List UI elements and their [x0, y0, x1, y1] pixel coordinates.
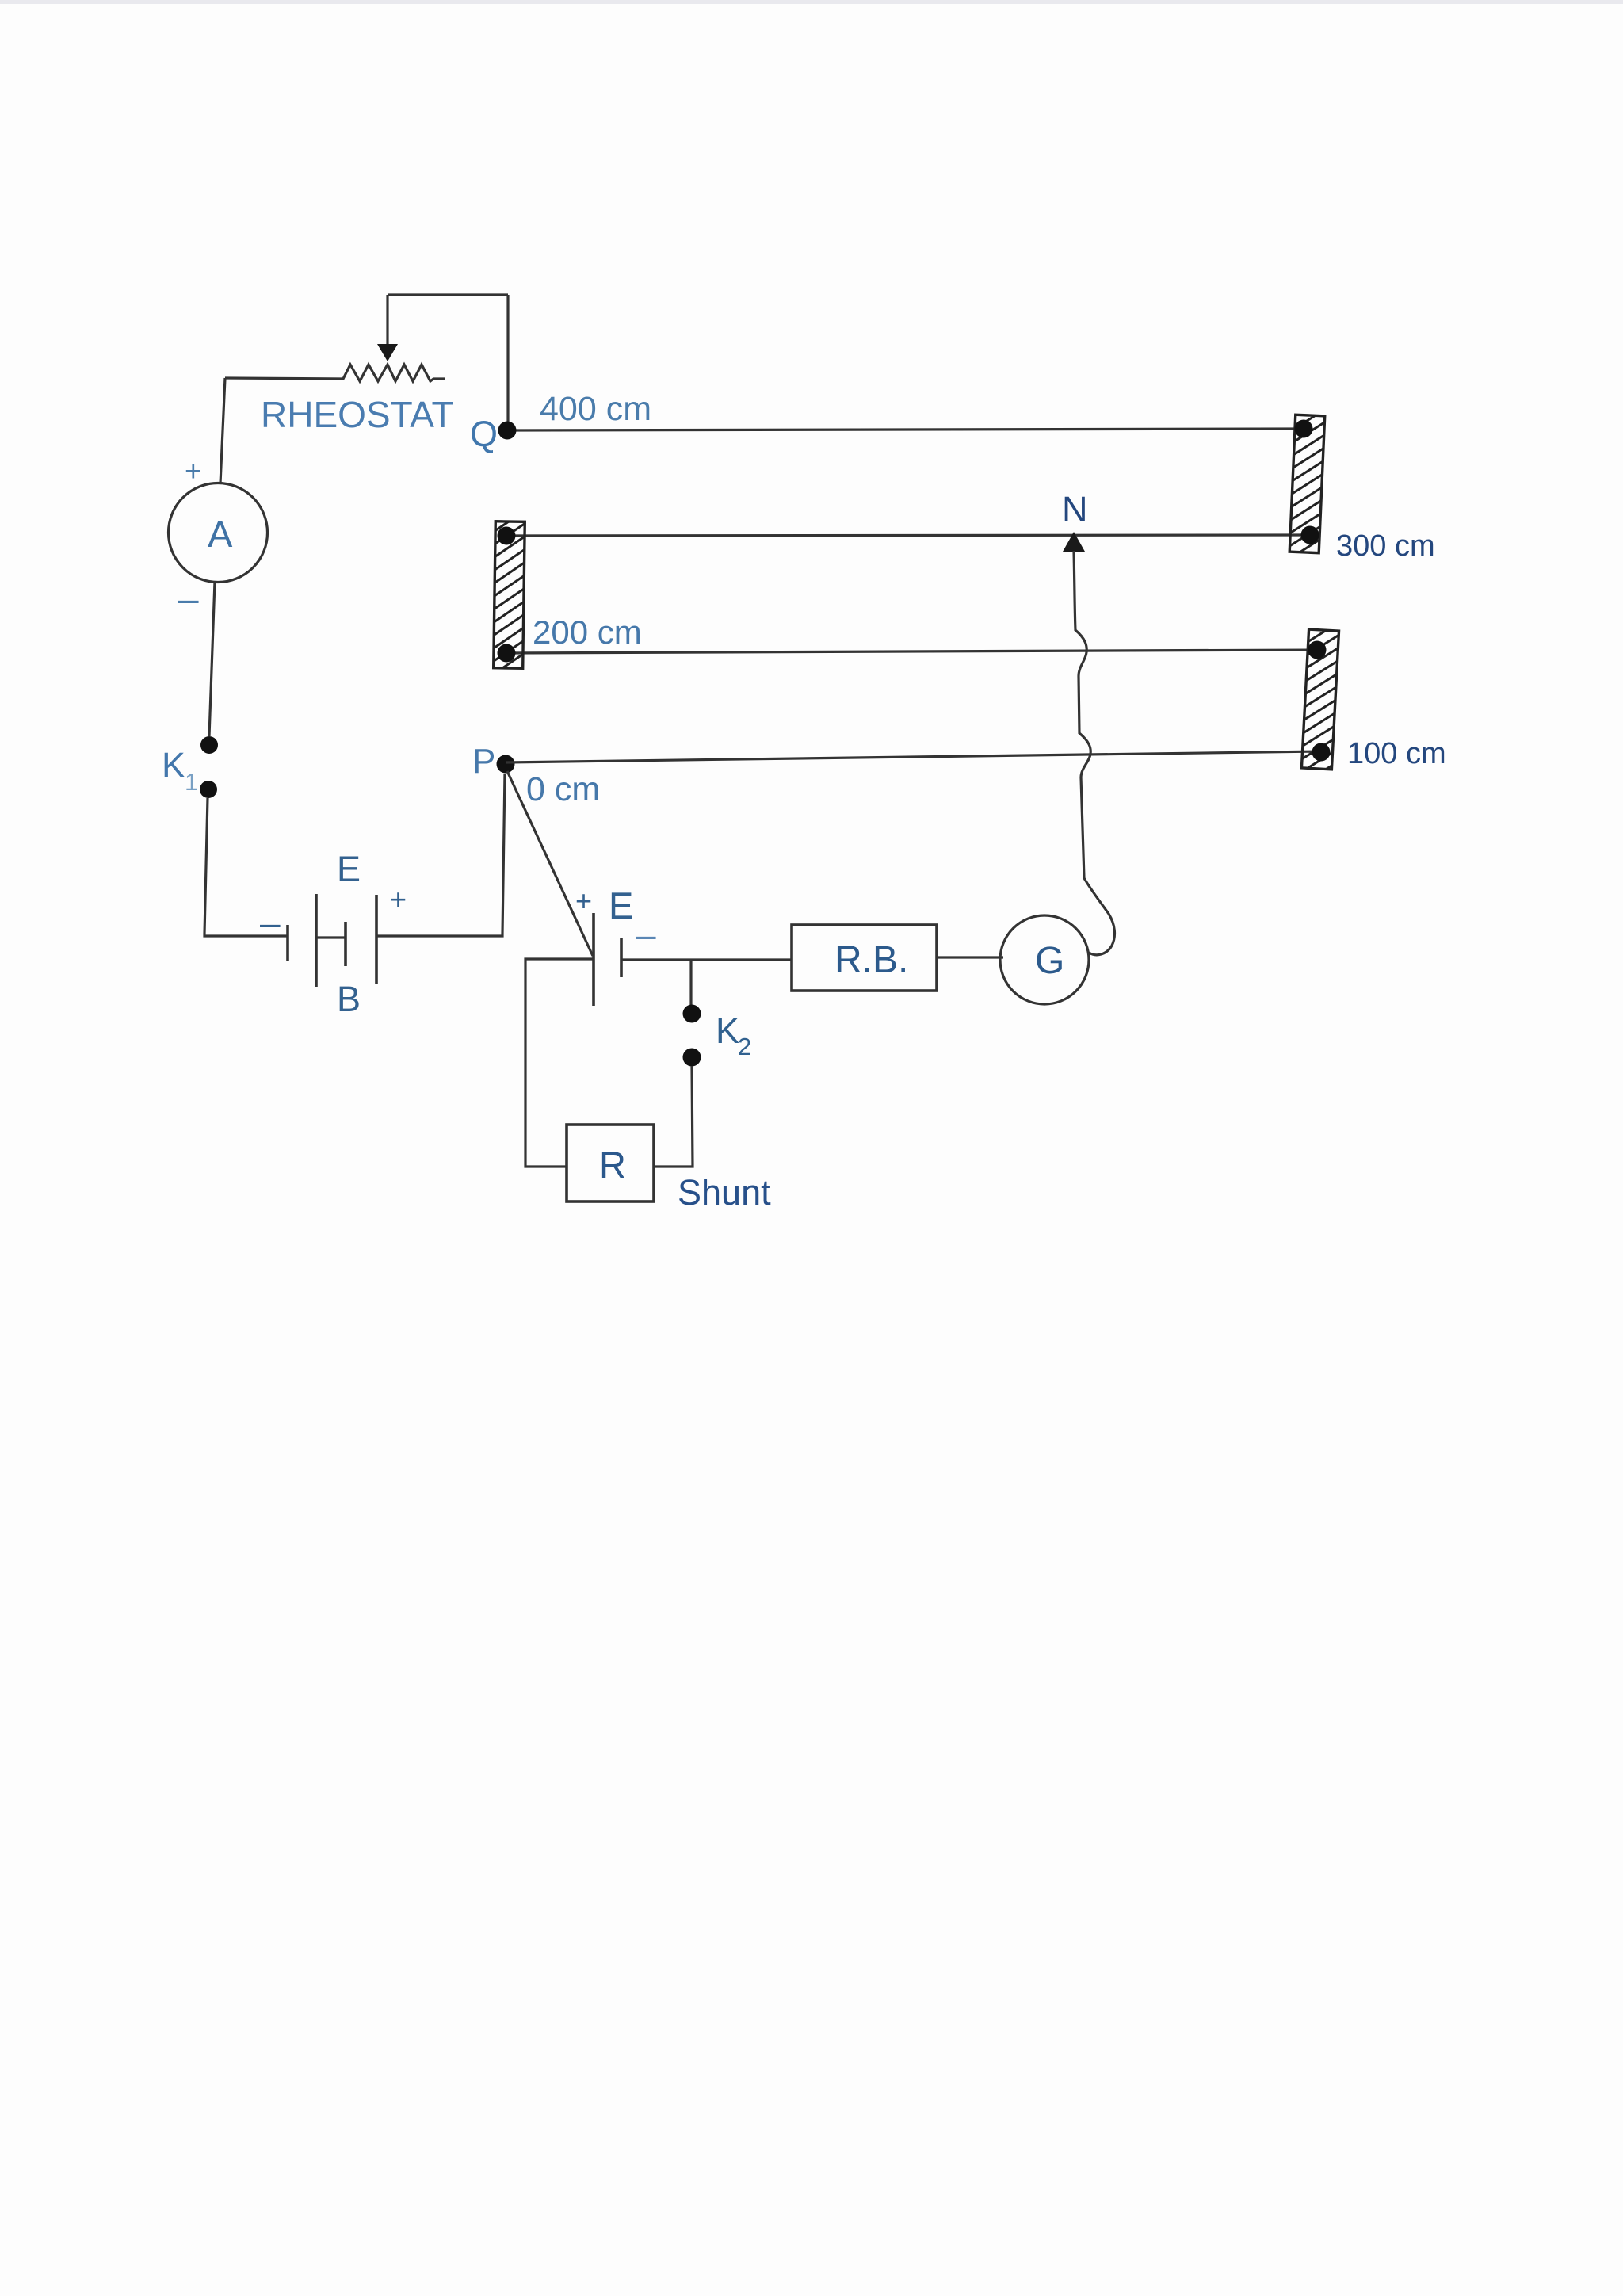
ammeter A circle — [169, 483, 268, 583]
svg-text:P: P — [472, 742, 495, 781]
jockey flexible wire from N to G — [1074, 551, 1114, 955]
wire diagonal P to cell E — [507, 771, 593, 956]
terminal block top right (hatched) — [1289, 415, 1325, 552]
svg-text:+: + — [185, 455, 202, 487]
svg-text:G: G — [1035, 940, 1064, 982]
svg-text:R.B.: R.B. — [834, 939, 908, 981]
jockey arrowhead at N — [1063, 532, 1085, 552]
svg-text:B: B — [337, 979, 361, 1019]
wire cell E minus to RB — [621, 958, 792, 961]
resistor R (shunt) box — [567, 1125, 654, 1201]
terminal dot 400cm end right — [1295, 420, 1313, 438]
wire rheostat top loop — [388, 293, 508, 296]
wire K2 to shunt R — [654, 1066, 693, 1167]
svg-text:Shunt: Shunt — [678, 1172, 771, 1213]
cell E plate short (-) — [620, 938, 623, 977]
svg-text:E: E — [337, 849, 361, 889]
battery B plate long1 — [315, 894, 318, 987]
wire RB to G — [937, 956, 1003, 958]
terminal dot 300cm end left — [498, 527, 516, 545]
potentiometer wire 200cm segment — [506, 650, 1317, 653]
battery B plate long2 — [375, 895, 378, 984]
key K2 dots — [683, 1005, 701, 1023]
potentiometer wire 100cm segment — [506, 751, 1321, 762]
svg-text:N: N — [1062, 489, 1088, 529]
svg-text:1: 1 — [185, 768, 198, 796]
wire Q vertical — [506, 295, 509, 428]
svg-text:RHEOSTAT: RHEOSTAT — [261, 394, 454, 435]
terminal dot 200cm end right — [1308, 641, 1327, 659]
svg-text:A: A — [208, 513, 233, 555]
wire battery B to P — [376, 774, 505, 936]
svg-text:E: E — [609, 884, 633, 926]
svg-text:+: + — [390, 883, 407, 915]
svg-text:100 cm: 100 cm — [1347, 737, 1446, 770]
battery B plate short1 — [286, 925, 289, 961]
svg-text:K: K — [162, 745, 185, 785]
node Q dot — [498, 422, 517, 440]
svg-text:K: K — [716, 1010, 739, 1051]
terminal dot 200cm end left — [498, 644, 516, 663]
svg-text:–: – — [178, 578, 199, 619]
wire junction to K2 — [689, 960, 692, 1005]
node P dot — [497, 755, 515, 774]
resistance box R.B. — [792, 925, 937, 991]
svg-text:400 cm: 400 cm — [540, 390, 651, 428]
svg-text:300 cm: 300 cm — [1336, 529, 1435, 563]
svg-text:R: R — [599, 1144, 626, 1186]
wire ammeter to rheostat — [220, 378, 225, 483]
battery B inter-cell link — [316, 936, 346, 938]
svg-text:200 cm: 200 cm — [533, 613, 642, 651]
potentiometer wire 300cm segment — [506, 535, 1310, 536]
battery B plate short2 — [344, 922, 347, 966]
rheostat wiper arrowhead — [377, 344, 398, 361]
terminal dot 100cm end right — [1312, 743, 1331, 762]
key K1 dots — [200, 736, 218, 754]
svg-text:–: – — [636, 914, 656, 955]
svg-text:–: – — [260, 902, 281, 943]
terminal block left (hatched) — [494, 521, 525, 668]
svg-text:Q: Q — [470, 414, 498, 454]
wire K1 to battery B — [204, 798, 288, 936]
resistor rheostat zigzag — [225, 365, 445, 381]
svg-text:0 cm: 0 cm — [526, 770, 600, 808]
wire ammeter to K1 — [209, 582, 215, 736]
cell E plate long (+) — [592, 913, 595, 1006]
wire shunt-loop left top — [525, 959, 594, 1167]
terminal dot 300cm end right — [1301, 526, 1319, 544]
potentiometer wire 400cm segment — [507, 429, 1304, 430]
terminal block bottom right (hatched) — [1301, 629, 1338, 770]
svg-text:+: + — [575, 884, 592, 917]
galvanometer G — [1000, 915, 1089, 1004]
wire rheostat wiper vertical — [386, 295, 388, 346]
svg-text:2: 2 — [738, 1033, 751, 1060]
